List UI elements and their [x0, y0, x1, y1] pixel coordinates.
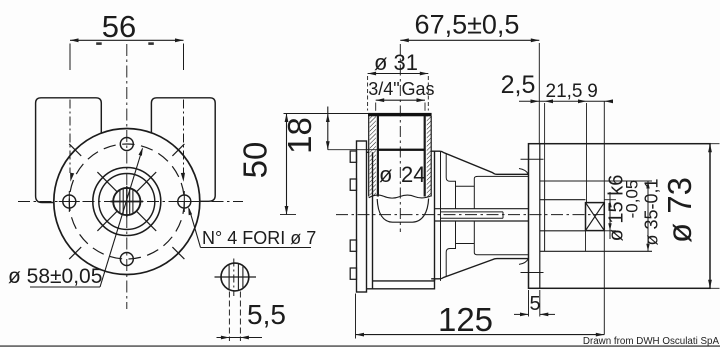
node: hub inner circle: [99, 174, 155, 230]
svg-text:Gas: Gas: [401, 79, 434, 99]
wire: dimension ø35: [647, 181, 649, 251]
node: pump body ears (rear housing outline): [36, 98, 216, 203]
node: bolt holes (4x): [63, 195, 76, 208]
node: thread depth line: [378, 149, 425, 151]
svg-text:21,5: 21,5: [546, 81, 583, 102]
wire: shaft crosshair: [111, 201, 144, 203]
wire: hub 45-degree diagonals: [136, 172, 156, 192]
node: shaft circle: [113, 188, 140, 215]
node: bore ø35 lines: [540, 180, 652, 182]
wire: break line in port: [369, 195, 432, 198]
node: rear cover plate line: [539, 144, 541, 289]
svg-text:24: 24: [401, 162, 425, 187]
wire: horizontal centerline front view: [18, 201, 243, 203]
wire: X marks on flange circle: [69, 144, 81, 156]
node: mounting flange plate: [357, 141, 367, 292]
wire: leader for flange diameter: [30, 286, 100, 288]
node: shaft detail circle: [221, 263, 249, 291]
node: shaft ø15 lines: [540, 199, 586, 201]
node: bolt circle (dashed): [69, 144, 184, 259]
svg-text:ø 58±0,05: ø 58±0,05: [8, 265, 102, 288]
svg-text:125: 125: [438, 301, 493, 338]
svg-text:3/4": 3/4": [368, 79, 399, 99]
svg-text:Drawn from DWH Osculati SpA: Drawn from DWH Osculati SpA: [583, 336, 720, 347]
wire: casing flange ticks: [521, 158, 544, 160]
svg-text:-0,05: -0,05: [623, 180, 642, 219]
node: pump casing outline: [367, 151, 529, 289]
wire: shaft lines in casing: [435, 208, 529, 210]
node: flange outer circle: [54, 129, 200, 275]
svg-text:ø 73: ø 73: [661, 177, 698, 243]
svg-text:50: 50: [237, 142, 274, 179]
node: motor housing rectangle: [529, 144, 711, 289]
svg-text:5: 5: [529, 293, 540, 315]
component: bearing (crossed square): [586, 203, 605, 231]
wire: dimension 56: [70, 9, 184, 70]
wire: port axis centerline: [399, 44, 401, 232]
node: port cavity bottom: [377, 199, 428, 223]
wire: left ear hole axis: [69, 100, 71, 174]
wire: bottom border: [0, 345, 720, 347]
svg-text:9: 9: [587, 81, 598, 102]
svg-text:N° 4 FORI ø 7: N° 4 FORI ø 7: [202, 228, 316, 248]
svg-text:5,5: 5,5: [247, 299, 286, 330]
node: flange plate bolt tabs: [350, 151, 356, 162]
wire: right ear hole axis: [183, 100, 185, 174]
wire: leader for bolt holes: [189, 209, 200, 248]
wire: shaft hatching: [119, 191, 121, 213]
wire: dimension ø73: [708, 143, 720, 145]
svg-text:18: 18: [281, 117, 318, 154]
svg-text:56: 56: [102, 9, 136, 44]
wire: vertical centerline front view: [126, 44, 128, 309]
wire: detail hatching: [228, 265, 230, 289]
svg-text:2,5: 2,5: [501, 71, 536, 99]
wire: dimension ø15 k6: [609, 192, 611, 239]
svg-text:ø 31: ø 31: [374, 50, 418, 75]
svg-text:ø: ø: [379, 162, 392, 187]
node: hub outer circle: [93, 168, 161, 236]
svg-text:ø 35-0,1: ø 35-0,1: [642, 178, 662, 245]
wire: casing interior lines: [441, 151, 529, 281]
wire: horizontal centerline side view: [336, 214, 604, 216]
svg-text:67,5±0,5: 67,5±0,5: [415, 10, 520, 40]
wire: dimension 5,5: [228, 292, 230, 342]
